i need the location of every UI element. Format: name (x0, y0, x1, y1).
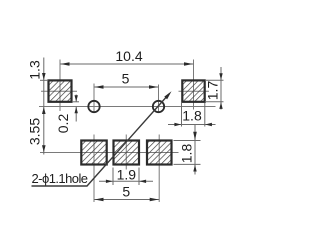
svg-text:0.2: 0.2 (55, 114, 71, 134)
dimension 0.2 upper segment (75, 95, 77, 102)
arrow up at center line (shared 1.3 / 3.55) (42, 107, 46, 114)
pad P1 horizontal center stubs (41, 90, 77, 92)
hole H2 (right 1.1 hole) (153, 101, 164, 112)
svg-text:1.8: 1.8 (182, 108, 202, 124)
svg-text:5: 5 (122, 184, 130, 200)
svg-text:5: 5 (122, 71, 130, 87)
dimension 1.3 line (43, 58, 45, 155)
leader arrowhead (164, 91, 171, 99)
svg-text:1.9: 1.9 (117, 167, 137, 183)
svg-text:1.3: 1.3 (27, 60, 43, 80)
hole H1 vertical center line / extension of top 5 (93, 84, 95, 113)
dimension 1.8 horizontal extension lines (181, 103, 183, 127)
pad A (bottom left, hatched) (81, 141, 106, 165)
pad A vertical center line (93, 135, 95, 203)
svg-text:2-ϕ1.1hole: 2-ϕ1.1hole (32, 171, 88, 186)
dimension 1.7 extension lines (205, 79, 224, 81)
pad P1 top extension line (40, 79, 48, 81)
dimension 0.2 lower segment (75, 107, 77, 122)
pad B vertical center line (125, 135, 127, 170)
center line row1 (39, 106, 216, 108)
pad B (bottom middle, hatched) (114, 141, 140, 165)
hole H1 (left 1.1 hole) (88, 101, 99, 112)
dimension 5 top line (94, 86, 159, 88)
pad P2 horizontal center stubs (179, 90, 210, 92)
dimension 1.8 vertical line (194, 125, 196, 175)
arrow down at bottom row center line (42, 145, 46, 152)
center line row2 (40, 152, 179, 154)
dimension 1.9 extension lines (112, 168, 114, 186)
dimension 5 bottom line (94, 199, 159, 201)
svg-text:10.4: 10.4 (115, 48, 142, 64)
dimension 1.9 line (99, 180, 153, 182)
arrow down at pad top (42, 73, 46, 80)
svg-text:1.8: 1.8 (179, 144, 195, 164)
svg-text:1.7: 1.7 (205, 81, 221, 101)
dimension 1.7 line (220, 67, 222, 110)
pad C (bottom right, hatched) (147, 141, 172, 165)
pad P1 (top left, hatched) (49, 80, 72, 101)
svg-text:3.55: 3.55 (27, 118, 43, 145)
pad P1 vertical center line (59, 60, 61, 112)
pad P2 vertical center line / extension of 10.4 (193, 60, 195, 80)
hole H2 vertical center line (158, 85, 160, 113)
dimension 1.8 horizontal line (168, 124, 216, 126)
dimension 1.8 vertical extension lines (174, 140, 201, 142)
pad P1 bottom extension line (72, 101, 79, 103)
leader underline and leader line (32, 94, 170, 186)
pad C vertical center line (158, 135, 160, 203)
pad P2 (top right, hatched) (182, 80, 204, 101)
dimension 10.4 line (60, 63, 194, 65)
